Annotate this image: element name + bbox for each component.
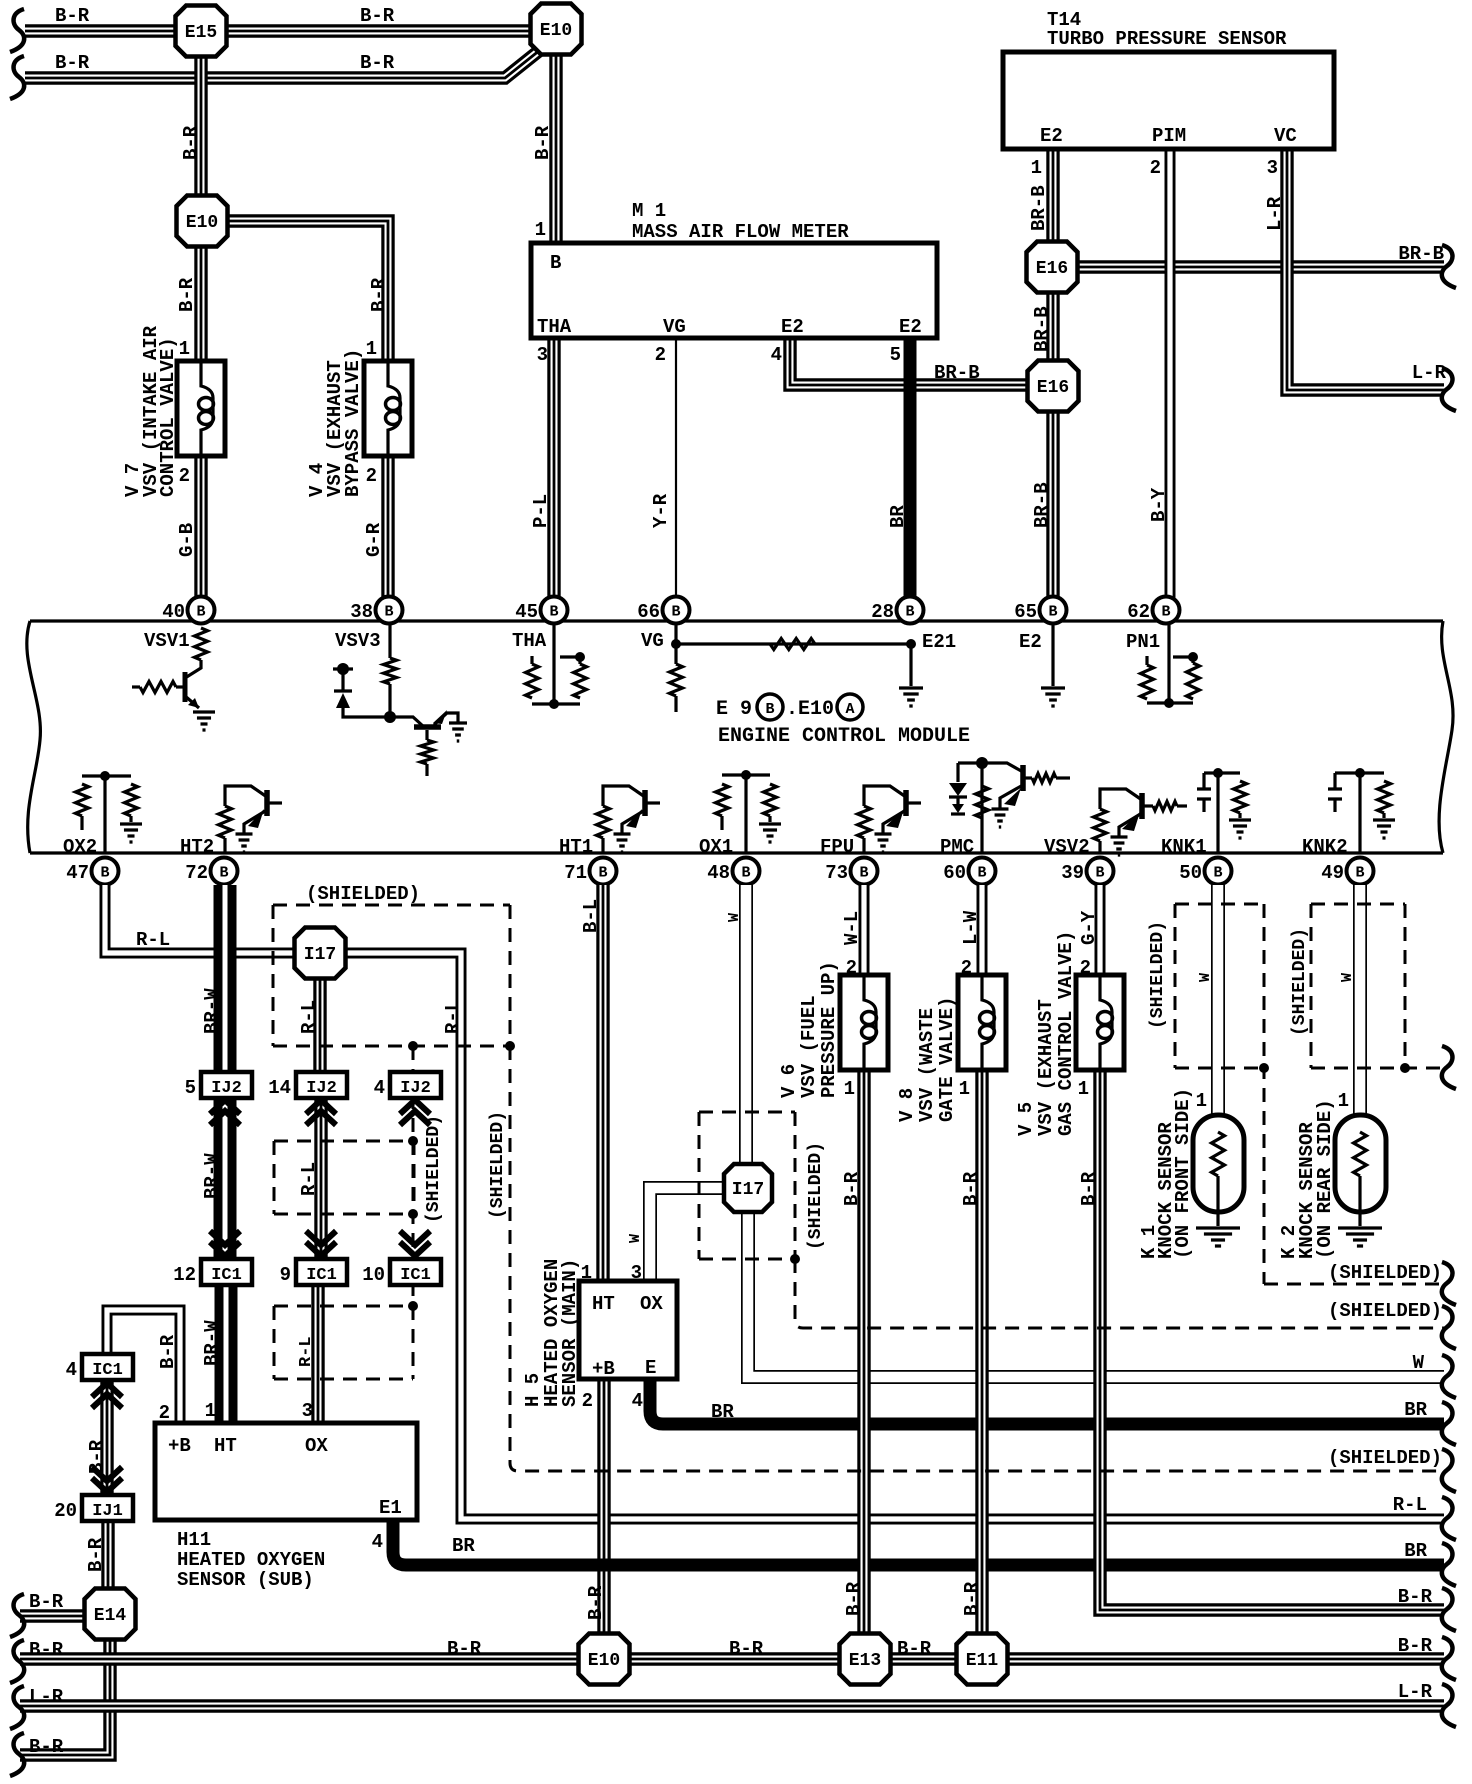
svg-text:VSV1: VSV1	[144, 630, 190, 652]
svg-text:BR: BR	[452, 1535, 475, 1557]
wire BR-B E16 to E16	[1046, 290, 1059, 363]
svg-text:20: 20	[54, 1500, 77, 1522]
svg-text:HT2: HT2	[180, 836, 214, 858]
solenoid V5 VSV (exhaust gas control valve)	[1076, 975, 1124, 1070]
svg-text:28: 28	[871, 601, 894, 623]
wire BR-W IJ2 to IC1	[214, 1095, 237, 1261]
shield dashed box around I17	[273, 905, 510, 1046]
svg-text:R-L: R-L	[298, 1162, 320, 1196]
box H5 heated oxygen sensor (main)	[579, 1281, 677, 1380]
wire B-R bus row2 (to E10 diagonal)	[25, 50, 540, 78]
ECM right torn edge	[1439, 621, 1453, 853]
ECM bottom border	[30, 851, 1443, 854]
shield dashed box R-L lower	[274, 1306, 413, 1379]
svg-text:G-B: G-B	[176, 523, 198, 557]
svg-text:1: 1	[1078, 1078, 1089, 1100]
junction dot shield right	[505, 1041, 515, 1051]
pin 45 THA	[515, 597, 567, 624]
svg-text:W-L: W-L	[841, 911, 863, 945]
svg-text:10: 10	[362, 1264, 385, 1286]
ground below K1	[1196, 1228, 1240, 1246]
svg-text:B-R: B-R	[176, 277, 198, 312]
svg-text:B-R: B-R	[1078, 1171, 1100, 1206]
solenoid V7 VSV (intake air control valve)	[177, 361, 225, 456]
svg-text:R-L: R-L	[1393, 1494, 1427, 1516]
connector E13	[840, 1634, 891, 1685]
wire R-L I17 to IJ2	[313, 976, 326, 1074]
svg-text:40: 40	[162, 601, 185, 623]
wire G-R V4 to pin 38	[381, 453, 394, 598]
svg-text:B-R: B-R	[29, 1639, 64, 1661]
svg-text:IJ2: IJ2	[211, 1079, 242, 1098]
svg-text:OX: OX	[640, 1293, 663, 1315]
svg-text:(SHIELDED): (SHIELDED)	[424, 1115, 444, 1223]
svg-text:(SHIELDED): (SHIELDED)	[1328, 1300, 1442, 1322]
svg-text:VG: VG	[663, 316, 686, 338]
svg-text:M 1: M 1	[632, 200, 666, 222]
svg-text:IC1: IC1	[211, 1266, 242, 1285]
svg-text:BR: BR	[1404, 1399, 1427, 1421]
wire BR-B T14 E2 to E16	[1046, 147, 1059, 244]
svg-text:GAS CONTROL VALVE): GAS CONTROL VALVE)	[1055, 931, 1077, 1136]
continuation mark left B-R row1	[10, 9, 24, 52]
svg-text:65: 65	[1014, 601, 1037, 623]
svg-text:HT1: HT1	[559, 836, 593, 858]
solenoid V4 VSV (exhaust bypass valve)	[364, 361, 412, 456]
wire R-L IJ2 to IC1	[314, 1095, 327, 1261]
svg-text:IJ2: IJ2	[400, 1079, 431, 1098]
continuation mark right BR lower	[1442, 1543, 1456, 1586]
shield dashed box knock sensor K1	[1175, 904, 1444, 1284]
svg-text:E15: E15	[185, 23, 217, 43]
junction dot shield I17 box	[790, 1254, 800, 1264]
svg-text:BYPASS VALVE): BYPASS VALVE)	[342, 349, 364, 497]
ECM internal HT2 resistor	[219, 806, 232, 853]
ECM left torn edge	[27, 621, 41, 853]
connector E11	[957, 1634, 1008, 1685]
svg-text:14: 14	[268, 1077, 291, 1099]
svg-text:BR: BR	[1404, 1540, 1427, 1562]
junction dot shield 2	[408, 1136, 418, 1146]
connector E10 top	[531, 4, 582, 55]
svg-text:V 5: V 5	[1015, 1102, 1037, 1136]
svg-text:KNK1: KNK1	[1161, 836, 1207, 858]
wire L-R T14 VC to right edge	[1287, 147, 1444, 390]
knock sensor K1	[1193, 1115, 1244, 1226]
svg-text:CONTROL VALVE): CONTROL VALVE)	[157, 337, 179, 497]
svg-text:BR-W: BR-W	[201, 1153, 223, 1199]
svg-text:.E10: .E10	[786, 698, 834, 721]
pin 48 OX1	[707, 858, 759, 885]
svg-text:E1: E1	[379, 1497, 402, 1519]
svg-text:L-R: L-R	[1412, 362, 1447, 384]
ECM top border	[30, 619, 1443, 622]
svg-text:W: W	[1413, 1352, 1425, 1374]
svg-text:PMC: PMC	[940, 836, 974, 858]
svg-text:B-R: B-R	[447, 1638, 482, 1660]
svg-text:E21: E21	[922, 631, 956, 653]
arrow up to IJ2 pin14	[306, 1100, 336, 1125]
arrow up to IJ2 pin5	[210, 1100, 240, 1125]
svg-text:3: 3	[537, 344, 548, 366]
arrow up to IJ2 pin4	[400, 1100, 430, 1125]
shield dashed box around I17 second	[699, 1112, 795, 1259]
svg-text:1: 1	[205, 1400, 216, 1422]
svg-text:4: 4	[632, 1390, 643, 1412]
svg-text:BR: BR	[711, 1401, 734, 1423]
ECM internal PMC network	[949, 757, 1070, 853]
svg-text:IJ1: IJ1	[92, 1502, 123, 1521]
wire B-R H11 +B to IC1	[107, 1310, 180, 1425]
svg-text:GATE VALVE): GATE VALVE)	[936, 997, 958, 1122]
connector E16 lower	[1028, 361, 1079, 412]
svg-text:OX2: OX2	[63, 836, 97, 858]
svg-text:50: 50	[1179, 862, 1202, 884]
svg-text:V 6: V 6	[778, 1064, 800, 1098]
svg-text:W: W	[627, 1234, 644, 1243]
wire B-R E14 down to left edge	[20, 1638, 110, 1755]
svg-text:4: 4	[372, 1531, 383, 1553]
svg-text:B-R: B-R	[368, 277, 390, 312]
arrow down to IC1 pin12	[210, 1231, 240, 1256]
svg-text:1: 1	[581, 1262, 592, 1284]
svg-text:B: B	[741, 865, 750, 882]
wire R-L pin 47 to I17	[105, 885, 298, 953]
svg-text:E13: E13	[849, 1651, 881, 1671]
svg-text:A: A	[845, 701, 854, 718]
arrow down to IC1 pin10	[400, 1231, 430, 1256]
pin 73 FPU	[825, 858, 877, 885]
svg-text:L-W: L-W	[960, 910, 982, 945]
svg-text:(ON FRONT SIDE): (ON FRONT SIDE)	[1172, 1088, 1194, 1259]
wire BR M1 E2 pin5 to pin 28	[904, 336, 917, 598]
continuation mark left B-R bus	[10, 1640, 24, 1683]
svg-text:B-L: B-L	[580, 899, 602, 933]
connector IJ2 pin 14	[268, 1072, 347, 1099]
continuation mark left B-R E14	[10, 1594, 24, 1637]
svg-text:B-R: B-R	[29, 1736, 64, 1758]
pin 72 HT2	[185, 858, 237, 885]
svg-text:B-R: B-R	[961, 1581, 983, 1616]
svg-text:+B: +B	[592, 1358, 615, 1380]
wire L-R bottom bus	[20, 1699, 1444, 1712]
svg-text:B-R: B-R	[180, 125, 202, 160]
svg-text:B: B	[905, 604, 914, 621]
svg-text:PN1: PN1	[1126, 631, 1160, 653]
pin 39 VSV2	[1061, 858, 1113, 885]
connector E10 bottom	[579, 1634, 630, 1685]
svg-text:W: W	[726, 913, 743, 922]
svg-text:1: 1	[1031, 157, 1042, 179]
svg-text:E11: E11	[966, 1651, 999, 1671]
svg-text:W: W	[1197, 973, 1214, 982]
svg-text:E 9: E 9	[716, 698, 752, 721]
arrow down to IC1 pin9	[306, 1231, 336, 1256]
svg-text:VSV (WASTE: VSV (WASTE	[916, 1008, 938, 1122]
wire BR H11 E1 to right edge	[393, 1518, 1444, 1565]
ECM internal VG network	[670, 624, 917, 712]
ECM internal VSV2 resistor	[1094, 809, 1107, 853]
svg-text:P-L: P-L	[530, 494, 552, 528]
svg-text:IC1: IC1	[92, 1361, 123, 1380]
connector E10 left	[177, 196, 228, 247]
ECM internal HT1 resistor	[597, 806, 610, 853]
svg-text:B-R: B-R	[1398, 1586, 1433, 1608]
svg-text:B-R: B-R	[585, 1585, 607, 1620]
continuation mark left L-R bus	[10, 1686, 24, 1729]
svg-text:KNK2: KNK2	[1302, 836, 1348, 858]
svg-text:2: 2	[961, 957, 972, 979]
wire Y-R M1 VG to pin 66	[675, 336, 677, 598]
svg-text:VSV2: VSV2	[1044, 836, 1090, 858]
svg-text:B-R: B-R	[360, 52, 395, 74]
svg-text:R-L: R-L	[442, 1000, 464, 1034]
arrow down to IJ1 pin20	[92, 1467, 122, 1492]
shield dashed vertical to right edge	[510, 1046, 1444, 1471]
wire B-L pin 71 to H5 HT	[596, 885, 609, 1283]
label E 9 (B) , E10 (A)	[716, 694, 863, 721]
svg-text:(SHIELDED): (SHIELDED)	[1148, 921, 1168, 1029]
svg-text:(SHIELDED): (SHIELDED)	[1328, 1447, 1442, 1469]
svg-text:B: B	[100, 865, 109, 882]
svg-text:BR-B: BR-B	[1031, 306, 1053, 352]
svg-text:(SHIELDED): (SHIELDED)	[488, 1111, 508, 1219]
svg-text:L-R: L-R	[1398, 1681, 1433, 1703]
svg-text:TURBO PRESSURE SENSOR: TURBO PRESSURE SENSOR	[1047, 28, 1287, 50]
svg-text:B-Y: B-Y	[1148, 487, 1170, 522]
wire B-R E10 right to V4	[227, 221, 388, 363]
svg-text:60: 60	[943, 862, 966, 884]
connector E15	[176, 6, 227, 57]
svg-text:B-R: B-R	[729, 1638, 764, 1660]
svg-text:E16: E16	[1036, 259, 1068, 279]
shield dashed box knock sensor K2	[1311, 904, 1444, 1068]
svg-text:E: E	[645, 1357, 656, 1379]
svg-text:E10: E10	[588, 1651, 620, 1671]
pin 40 VSV1	[162, 597, 214, 624]
svg-text:4: 4	[771, 344, 782, 366]
svg-text:THA: THA	[537, 316, 572, 338]
svg-text:B: B	[859, 865, 868, 882]
connector E14	[85, 1589, 136, 1640]
svg-text:45: 45	[515, 601, 538, 623]
svg-text:BR: BR	[887, 505, 909, 528]
svg-text:IJ2: IJ2	[306, 1079, 337, 1098]
connector IC1 pin 9	[280, 1259, 347, 1286]
junction dot shield 4	[408, 1301, 418, 1311]
svg-text:9: 9	[280, 1264, 291, 1286]
continuation mark left B-R row4	[10, 1733, 24, 1776]
arrow up to IC1 pin4	[92, 1383, 122, 1408]
junction dot shield	[408, 1041, 418, 1051]
svg-text:SENSOR (MAIN): SENSOR (MAIN)	[559, 1259, 581, 1407]
svg-text:1: 1	[844, 1078, 855, 1100]
ECM internal HT1 driver	[603, 786, 660, 833]
ECM internal OX2 network	[76, 771, 138, 853]
svg-text:E14: E14	[94, 1606, 127, 1626]
svg-text:B-R: B-R	[960, 1171, 982, 1206]
svg-text:B: B	[1048, 604, 1057, 621]
svg-text:I17: I17	[732, 1180, 764, 1200]
ECM internal OX1 network	[716, 770, 777, 853]
ECM internal E2 ground	[1051, 624, 1054, 686]
svg-text:HEATED OXYGEN: HEATED OXYGEN	[177, 1549, 325, 1571]
svg-text:B: B	[1161, 604, 1170, 621]
wire G-Y pin 39 to V5	[1095, 885, 1106, 977]
svg-text:BR-B: BR-B	[1398, 243, 1444, 265]
wire W pin 48 to I17	[739, 885, 753, 1164]
svg-text:B-R: B-R	[841, 1171, 863, 1206]
svg-text:4: 4	[374, 1077, 385, 1099]
junction dot shield K2	[1400, 1063, 1410, 1073]
svg-text:FPU: FPU	[820, 836, 854, 858]
ECM internal KNK1 network	[1197, 768, 1247, 853]
continuation mark right BR upper	[1442, 1402, 1456, 1445]
svg-text:E2: E2	[899, 316, 922, 338]
svg-text:R-L: R-L	[136, 929, 170, 951]
ECM internal KNK2 network	[1328, 768, 1391, 853]
svg-text:B-R: B-R	[55, 52, 90, 74]
svg-text:SENSOR (SUB): SENSOR (SUB)	[177, 1569, 314, 1591]
wire BR-W IC1 to H11 HT	[215, 1282, 238, 1425]
wire B-R V5 to right edge	[1100, 1070, 1444, 1610]
svg-text:2: 2	[582, 1390, 593, 1412]
svg-text:1: 1	[1338, 1090, 1349, 1112]
svg-text:VSV3: VSV3	[335, 630, 381, 652]
svg-text:2: 2	[179, 465, 190, 487]
connector I17 second	[724, 1164, 772, 1212]
svg-text:E2: E2	[781, 316, 804, 338]
svg-text:71: 71	[564, 862, 587, 884]
connector IJ2 pin 5	[185, 1072, 252, 1099]
svg-text:5: 5	[185, 1077, 196, 1099]
svg-text:2: 2	[1080, 957, 1091, 979]
svg-text:OX1: OX1	[699, 836, 733, 858]
svg-text:3: 3	[1267, 157, 1278, 179]
svg-text:(SHIELDED): (SHIELDED)	[806, 1142, 826, 1250]
connector IC1 pin 10	[362, 1259, 441, 1286]
box M1 mass air flow meter	[531, 243, 937, 338]
svg-text:B-R: B-R	[897, 1638, 932, 1660]
continuation mark right BR-B	[1442, 245, 1456, 288]
connector IC1 pin 12	[173, 1259, 252, 1286]
svg-text:IC1: IC1	[400, 1266, 431, 1285]
svg-text:W: W	[1339, 973, 1356, 982]
ECM internal HT2 driver	[225, 786, 282, 833]
svg-text:(SHIELDED): (SHIELDED)	[306, 883, 420, 905]
svg-text:38: 38	[350, 601, 373, 623]
wire B-R bus row1 (E15 to E10)	[25, 24, 533, 37]
svg-text:G-R: G-R	[363, 522, 385, 557]
svg-text:E16: E16	[1037, 378, 1069, 398]
pin 66 VG	[637, 597, 689, 624]
wire G-B V7 to pin 40	[194, 453, 207, 598]
wire B-R H5 +B to E10	[597, 1377, 610, 1636]
svg-text:3: 3	[631, 1262, 642, 1284]
svg-text:BR-B: BR-B	[1031, 482, 1053, 528]
svg-text:B: B	[1213, 865, 1222, 882]
wire BR-B E16 bus to right edge	[1075, 260, 1444, 273]
wire B-R E10 down to M1 pin B	[549, 52, 562, 245]
svg-text:1: 1	[1196, 1090, 1207, 1112]
svg-text:73: 73	[825, 862, 848, 884]
svg-text:12: 12	[173, 1264, 196, 1286]
wire B-R IJ1 to E14	[101, 1518, 114, 1591]
svg-text:B: B	[384, 604, 393, 621]
continuation mark right shielded bus	[1442, 1449, 1456, 1492]
svg-text:1: 1	[179, 338, 190, 360]
svg-text:B-R: B-R	[85, 1537, 107, 1572]
svg-text:I17: I17	[304, 945, 336, 965]
shield dashed corner to right edge	[795, 1259, 1444, 1328]
pin 28 E21	[871, 597, 923, 624]
svg-text:B-R: B-R	[360, 5, 395, 27]
pin 60 PMC	[943, 858, 995, 885]
continuation mark right R-L	[1442, 1497, 1456, 1540]
svg-text:B-R: B-R	[86, 1439, 108, 1474]
ECM internal VSV1 driver	[185, 628, 208, 678]
svg-text:BR-B: BR-B	[934, 362, 980, 384]
svg-text:THA: THA	[512, 630, 547, 652]
continuation mark right W	[1442, 1355, 1456, 1398]
svg-text:HT: HT	[214, 1435, 237, 1457]
svg-text:VSV (EXHAUST: VSV (EXHAUST	[1035, 999, 1057, 1136]
wire B-R bottom bus E10 E13 E11	[20, 1652, 1444, 1665]
svg-text:R-L: R-L	[297, 1336, 316, 1367]
svg-text:B-R: B-R	[1398, 1635, 1433, 1657]
svg-text:G-Y: G-Y	[1078, 910, 1100, 945]
pin 47 OX2	[66, 858, 118, 885]
svg-text:V 8: V 8	[896, 1088, 918, 1122]
svg-text:ENGINE CONTROL MODULE: ENGINE CONTROL MODULE	[718, 725, 970, 748]
shield drain dashed to IJ2	[412, 1046, 415, 1074]
svg-text:3: 3	[302, 1400, 313, 1422]
wire B-R IC1 to IJ1	[100, 1377, 113, 1497]
wire R-L I17 right to right edge	[343, 953, 1444, 1519]
svg-text:1: 1	[535, 219, 546, 241]
svg-text:1: 1	[959, 1078, 970, 1100]
svg-text:VC: VC	[1274, 125, 1297, 147]
wire B-R left edge to E14	[20, 1609, 86, 1622]
svg-text:VG: VG	[641, 630, 664, 652]
svg-text:4: 4	[66, 1359, 77, 1381]
wire BR-W pin 72 to IJ2	[214, 885, 237, 1074]
junction dot shield K1	[1259, 1063, 1269, 1073]
box H11 heated oxygen sensor (sub)	[155, 1423, 417, 1520]
svg-text:B: B	[550, 252, 561, 274]
connector IC1 pin 4	[66, 1354, 133, 1381]
wire W-L pin 73 to V6	[859, 885, 870, 977]
svg-text:MASS AIR FLOW METER: MASS AIR FLOW METER	[632, 221, 849, 243]
svg-text:B: B	[196, 604, 205, 621]
svg-text:B-R: B-R	[29, 1591, 64, 1613]
wire W pin 49 to knock sensor K2	[1353, 885, 1367, 1117]
svg-text:PRESSURE UP): PRESSURE UP)	[818, 961, 840, 1098]
svg-text:49: 49	[1321, 862, 1344, 884]
wire B-R V8 to E11	[975, 1070, 988, 1636]
svg-text:2: 2	[846, 957, 857, 979]
pin 50 KNK1	[1179, 858, 1231, 885]
svg-text:E2: E2	[1019, 631, 1042, 653]
svg-text:(SHIELDED): (SHIELDED)	[1328, 1262, 1442, 1284]
svg-text:Y-R: Y-R	[650, 493, 672, 528]
svg-text:R-L: R-L	[298, 1000, 320, 1034]
svg-text:B: B	[765, 701, 774, 718]
svg-text:B-R: B-R	[157, 1334, 179, 1369]
wire W pin 50 to knock sensor K1	[1211, 885, 1225, 1117]
shield drain dashed IJ2 to IC1	[412, 1095, 415, 1261]
pin 49 KNK2	[1321, 858, 1373, 885]
